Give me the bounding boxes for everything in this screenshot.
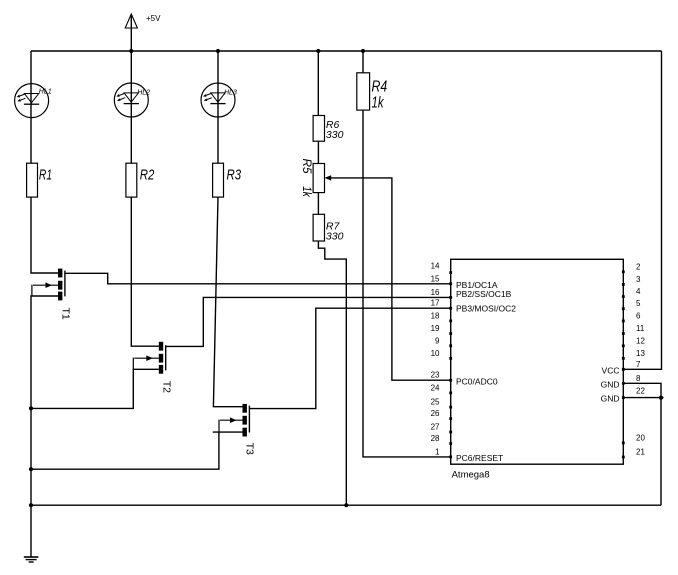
- node: junction dot R7 / bottom rail: [344, 503, 348, 507]
- svg-text:330: 330: [326, 129, 344, 141]
- svg-text:10: 10: [431, 349, 440, 358]
- resistor R6 330: [313, 116, 343, 142]
- pin 8 / GND: [601, 374, 641, 390]
- svg-text:5: 5: [636, 299, 641, 308]
- node: junction dot rail/HL3: [216, 49, 220, 53]
- wire: bottom ground rail: [31, 504, 661, 506]
- wire: rail to R4: [362, 51, 364, 73]
- wire: T3 source to ground column: [213, 431, 243, 433]
- svg-text:22: 22: [636, 387, 645, 396]
- transistor T3 (n-MOSFET): [219, 404, 256, 455]
- resistor R3: [213, 163, 242, 197]
- transistor T2 (n-MOSFET): [133, 342, 172, 393]
- svg-text:HL2: HL2: [137, 90, 150, 97]
- svg-text:+5V: +5V: [146, 14, 161, 23]
- svg-text:11: 11: [636, 324, 645, 333]
- wire: T1 source to ground column: [31, 296, 58, 557]
- pin 3: [622, 275, 641, 286]
- pin 5: [622, 299, 641, 310]
- wire: rail to R6: [317, 51, 319, 116]
- pin 17 / PB3/MOSI/OC2: [431, 299, 517, 314]
- wire: R5 to R7: [317, 193, 319, 215]
- svg-text:27: 27: [431, 423, 440, 432]
- svg-text:9: 9: [435, 336, 440, 345]
- node: junction dot T3 source / ground column: [29, 467, 33, 471]
- svg-text:3: 3: [636, 275, 641, 284]
- svg-text:HL1: HL1: [39, 88, 52, 95]
- LED HL3: [201, 83, 237, 117]
- pin 7 / VCC: [602, 360, 641, 376]
- svg-text:28: 28: [431, 434, 440, 443]
- svg-text:16: 16: [431, 288, 440, 297]
- svg-text:18: 18: [431, 311, 440, 320]
- wire: GND pin 8 to ground: [623, 383, 661, 505]
- svg-text:GND: GND: [601, 379, 620, 389]
- IC U1 Atmega8 body: [451, 259, 624, 480]
- pin 25: [431, 398, 453, 409]
- wire: R1 to T1 drain: [31, 197, 58, 273]
- resistor R2: [126, 163, 155, 197]
- node: junction dot T2 source / ground column: [29, 406, 33, 410]
- pin 21: [622, 448, 646, 459]
- svg-text:2: 2: [636, 262, 641, 271]
- pin 10: [431, 349, 453, 360]
- wire: R7 down to ground rail (staircase): [318, 241, 346, 505]
- svg-text:330: 330: [326, 231, 344, 243]
- node: junction dot pin22/GND wire: [659, 396, 663, 400]
- node: junction dot rail/R4: [361, 49, 365, 53]
- pin 27: [431, 423, 453, 434]
- pin 19: [431, 324, 453, 335]
- svg-text:14: 14: [431, 262, 440, 271]
- svg-text:1: 1: [435, 447, 440, 456]
- svg-text:T1: T1: [60, 308, 72, 320]
- pin 1 / PC6/RESET: [435, 447, 503, 463]
- wire: HL3 branch from rail: [217, 51, 219, 163]
- svg-text:24: 24: [431, 383, 440, 392]
- wire: R3 to T3 drain (slightly slanted): [213, 197, 242, 407]
- svg-text:13: 13: [636, 349, 645, 358]
- svg-text:R2: R2: [140, 167, 155, 183]
- pin 22 / GND: [601, 387, 646, 404]
- resistor R7 330: [313, 214, 343, 242]
- svg-text:T2: T2: [161, 381, 173, 393]
- svg-text:7: 7: [636, 360, 641, 369]
- wire: HL2 branch from rail: [130, 51, 132, 163]
- svg-text:PB2/SS/OC1B: PB2/SS/OC1B: [456, 289, 512, 299]
- svg-text:23: 23: [431, 371, 440, 380]
- wire: T1 gate to PB1/OC1A pin 15: [65, 273, 451, 284]
- power +5V symbol: [125, 14, 161, 51]
- wire: +5V top rail: [31, 50, 662, 52]
- svg-text:R3: R3: [227, 167, 242, 183]
- svg-text:PC0/ADC0: PC0/ADC0: [456, 377, 498, 387]
- svg-text:17: 17: [431, 299, 440, 308]
- resistor R1: [27, 163, 53, 197]
- svg-text:21: 21: [636, 448, 645, 457]
- svg-text:VCC: VCC: [602, 365, 620, 375]
- LED HL1: [15, 84, 52, 118]
- pin 13: [622, 349, 646, 360]
- svg-text:HL3: HL3: [224, 90, 237, 97]
- wire: T3 gate to PB3/MOSI/OC2 pin 17: [249, 308, 450, 408]
- wire: VCC pin 7 to +5V rail: [623, 51, 661, 369]
- potentiometer R5 1k: [300, 159, 331, 198]
- wire: T2 gate to PB2/SS/OC1B pin 16: [166, 297, 451, 346]
- pin 23 / PC0/ADC0: [431, 371, 498, 387]
- pin 12: [622, 336, 646, 347]
- wire: R6 to R5: [317, 141, 319, 163]
- node: junction dot rail/+5V/HL2: [129, 49, 133, 53]
- svg-text:4: 4: [636, 287, 641, 296]
- svg-text:25: 25: [431, 398, 440, 407]
- svg-text:R5: R5: [300, 159, 312, 175]
- pin 6: [622, 311, 641, 322]
- wire: T2 source to ground column: [31, 369, 159, 408]
- wire: rail corner down to LED HL1 and R1: [30, 51, 32, 163]
- svg-text:6: 6: [636, 311, 641, 320]
- pin 9: [435, 336, 452, 347]
- pin 11: [622, 324, 645, 335]
- pin 14: [431, 262, 453, 275]
- pin 26: [431, 409, 453, 420]
- svg-text:PB3/MOSI/OC2: PB3/MOSI/OC2: [456, 304, 516, 314]
- pin 16 / PB2/SS/OC1B: [431, 288, 512, 299]
- transistor T1 (n-MOSFET): [32, 269, 72, 320]
- svg-text:12: 12: [636, 336, 645, 345]
- wire: R5 wiper to PC0/ADC0 pin 23: [331, 178, 451, 380]
- svg-text:1k: 1k: [372, 95, 385, 112]
- svg-text:20: 20: [636, 434, 645, 443]
- LED HL2: [114, 83, 150, 117]
- svg-text:T3: T3: [244, 443, 256, 455]
- resistor R4 1k: [357, 73, 388, 112]
- svg-text:PC6/RESET: PC6/RESET: [456, 453, 503, 463]
- svg-text:26: 26: [431, 409, 440, 418]
- svg-text:19: 19: [431, 324, 440, 333]
- svg-text:1k: 1k: [300, 186, 312, 198]
- pin 28: [431, 434, 453, 445]
- wire: GND pin 22 stub: [623, 397, 663, 399]
- pin 18: [431, 311, 453, 322]
- node: junction dot ground column / bottom rail: [29, 503, 33, 507]
- pin 24: [431, 383, 453, 394]
- ground symbol: [24, 557, 39, 562]
- svg-text:8: 8: [636, 374, 641, 383]
- svg-text:Atmega8: Atmega8: [452, 469, 490, 480]
- svg-text:GND: GND: [601, 394, 620, 404]
- pin 15 / PB1/OC1A: [431, 274, 498, 290]
- svg-text:15: 15: [431, 274, 440, 283]
- svg-text:R4: R4: [372, 79, 388, 96]
- pin 2: [622, 262, 641, 273]
- node: junction dot rail/R6: [316, 49, 320, 53]
- wire: R2 to T2 drain: [131, 197, 159, 346]
- svg-text:R1: R1: [39, 167, 52, 183]
- pin 4: [622, 287, 641, 298]
- pin 20: [622, 434, 646, 445]
- wire: R4 down to PC6/RESET pin 1: [363, 110, 451, 457]
